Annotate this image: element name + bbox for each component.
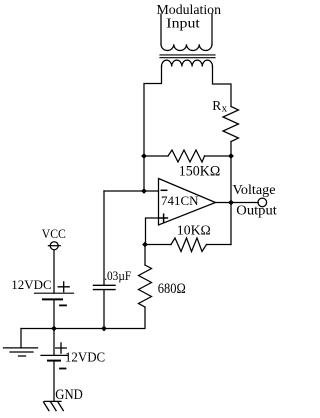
svg-text:x: x (222, 102, 228, 114)
terminal Voltage Output circle (258, 198, 267, 207)
terminal VCC circle (50, 242, 58, 250)
svg-text:.03µF: .03µF (104, 268, 131, 283)
wire secondary left lead (144, 67, 162, 157)
transformer T1 primary lead right (211, 14, 213, 44)
wire to output terminal (231, 202, 258, 204)
battery B1 long plate (35, 292, 74, 294)
battery B2 plus sign (56, 343, 67, 353)
wire battery 1 to rail (53, 299, 55, 328)
svg-text:Output: Output (236, 203, 277, 218)
node F junction dot cap to rail (101, 326, 107, 332)
resistor R3 10K wire left (145, 244, 171, 246)
wire right vertical (Rx to feedback corner) (230, 142, 232, 245)
chassis ground GND (44, 401, 64, 410)
wire secondary right lead (213, 67, 232, 107)
battery B2 short plate (48, 360, 60, 362)
wire battery 2 to chassis ground (53, 361, 55, 402)
wire capacitor bottom lead (103, 290, 105, 329)
svg-text:741CN: 741CN (161, 193, 199, 208)
wire left vertical to inverting input (143, 156, 145, 191)
earth ground (4, 348, 38, 356)
label Rx (212, 98, 227, 114)
node B junction dot right of 150K (228, 153, 234, 159)
wire ground rail (21, 328, 104, 330)
svg-text:12VDC: 12VDC (65, 350, 105, 365)
resistor R4 680 zigzag (139, 265, 152, 307)
op-amp plus sign (160, 214, 168, 222)
transformer T1 primary lead left (160, 14, 162, 44)
svg-text:10KΩ: 10KΩ (177, 223, 211, 238)
transformer T1 primary winding (161, 44, 212, 50)
resistor R3 10K zigzag (171, 238, 207, 252)
transformer T1 core (160, 55, 215, 58)
battery B2 minus sign (60, 368, 66, 370)
node C junction dot at inverting input (141, 188, 147, 194)
resistor 150K wire left (144, 155, 168, 157)
svg-text:Voltage: Voltage (233, 183, 276, 198)
wire rail to earth ground (20, 329, 22, 348)
transformer T1 secondary winding (162, 60, 213, 66)
svg-text:680Ω: 680Ω (158, 281, 186, 297)
wire plus node down to 680 (144, 245, 146, 266)
resistor Rx (223, 107, 239, 142)
node G junction dot battery rail (51, 326, 57, 332)
svg-text:GND: GND (55, 387, 83, 403)
node A junction dot left of 150K (141, 153, 147, 159)
terminal VCC crossbar (48, 245, 60, 247)
wire rail to battery 2 (53, 329, 55, 356)
resistor 10K wire right to feedback corner (207, 244, 232, 246)
svg-text:12VDC: 12VDC (11, 277, 51, 292)
resistor R2 150K zigzag (168, 150, 205, 162)
wire 680 bottom to ground rail (104, 307, 145, 329)
battery B1 plus sign (58, 282, 69, 292)
svg-text:150KΩ: 150KΩ (179, 164, 221, 180)
wire op-amp output (216, 202, 232, 204)
svg-text:VCC: VCC (42, 226, 66, 241)
node D output junction dot (228, 200, 234, 206)
battery B1 minus sign (60, 304, 66, 306)
node E junction dot at plus branch (142, 242, 148, 248)
resistor 150K wire right (205, 155, 232, 157)
battery B1 short plate (43, 298, 62, 300)
wire non-inverting input (146, 218, 159, 245)
wire inverting input (104, 190, 159, 192)
op-amp minus sign (161, 189, 166, 191)
svg-text:Input: Input (166, 15, 200, 30)
label Modulation Input (157, 2, 222, 31)
svg-text:R: R (212, 98, 221, 113)
capacitor C1 plates (94, 285, 116, 289)
wire left branch down to capacitor (103, 191, 105, 285)
battery B2 long plate (41, 354, 68, 356)
wire VCC to battery 1 (53, 250, 55, 294)
op-amp U1 741CN triangle (159, 179, 216, 226)
